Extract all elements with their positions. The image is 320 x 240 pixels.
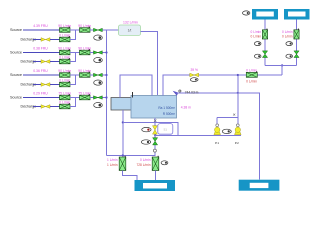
flow-meter block U1 1/t	[119, 25, 141, 35]
wire pump P11 out	[123, 171, 138, 181]
junction feed riser	[281, 64, 283, 66]
wire pump P12 out	[155, 171, 157, 181]
svg-text:Source: Source	[10, 73, 22, 77]
gauge G6b	[254, 54, 261, 58]
valve V9 (yellow vertical)	[153, 126, 158, 134]
outlet arrow mark	[154, 120, 156, 122]
pump P1c	[60, 36, 71, 42]
pump P11 vertical crossbox	[119, 156, 126, 171]
valve V6 (green vertical)	[262, 51, 267, 58]
svg-text:4.39 FRU: 4.39 FRU	[33, 24, 48, 28]
wire decharge3 join	[70, 75, 76, 85]
gauge G4	[94, 103, 103, 108]
wire feed riser	[281, 65, 283, 75]
svg-text:0.38 FRU: 0.38 FRU	[33, 47, 48, 51]
gauge G10	[141, 140, 150, 144]
svg-text:0.36 FRU: 0.36 FRU	[33, 69, 48, 73]
svg-text:90 L/min: 90 L/min	[78, 47, 91, 51]
pump P6 vertical crossbox	[262, 29, 267, 39]
pump P3b 90 L/min	[80, 72, 91, 78]
wire tank right feed	[163, 75, 282, 96]
wire tank R outlet stub	[154, 118, 156, 122]
wire bus bottom horizontal	[107, 154, 156, 156]
gauge G7b	[286, 54, 293, 58]
gauge G9	[142, 127, 151, 131]
svg-text:0 L/min: 0 L/min	[140, 158, 151, 162]
tank compartment R (main)	[131, 96, 177, 119]
wire collector bus vertical	[106, 30, 108, 155]
valve V10 (green vertical)	[153, 138, 158, 145]
gauge G5	[190, 78, 198, 82]
wire under-tank header	[123, 122, 178, 135]
wire valve VD2 to pump	[50, 61, 60, 63]
gauge G-top	[243, 11, 250, 15]
pump P5 crossbox	[246, 71, 257, 77]
svg-text:0.29 FRU: 0.29 FRU	[33, 92, 48, 96]
tower block T1	[252, 9, 278, 20]
wire hydrant header	[217, 116, 238, 118]
junction drain/bus-bottom	[122, 154, 124, 156]
port circle P2	[236, 124, 239, 127]
svg-text:75 L/min: 75 L/min	[58, 92, 71, 96]
svg-text:75 L/min: 75 L/min	[78, 92, 91, 96]
svg-text:90 L/min: 90 L/min	[78, 24, 91, 28]
svg-text:0 L/min: 0 L/min	[282, 34, 293, 38]
consumer block C2	[239, 180, 280, 191]
gauge G6a	[254, 42, 261, 46]
svg-text:90 L/min: 90 L/min	[78, 69, 91, 73]
gauge G-hydrant	[222, 129, 231, 133]
pump P2c	[60, 58, 71, 64]
wire tower2 drop	[296, 20, 298, 66]
wire tower1 drop	[264, 20, 266, 66]
wire hydrant drop P1	[216, 117, 218, 124]
valve V7 (green vertical)	[294, 51, 299, 58]
wire decharge2 stub	[33, 61, 41, 63]
wire city line	[155, 134, 241, 136]
junction drain/under-tank	[122, 121, 124, 123]
wire decharge1 join	[70, 30, 76, 40]
valve V3 (green)	[94, 73, 103, 76]
svg-text:S1: S1	[163, 128, 167, 132]
tank divider stub	[131, 92, 133, 98]
svg-text:Source: Source	[10, 28, 22, 32]
wire pump P2a to P2b	[70, 52, 80, 54]
corner mark hydrant	[233, 114, 235, 116]
pump P1b 90 L/min	[80, 27, 91, 33]
wire decharge4 stub	[33, 106, 41, 108]
wire outlet chain	[154, 122, 156, 155]
wire decharge4 join	[70, 98, 76, 107]
valve V5 (yellow) 39%	[190, 73, 199, 77]
svg-text:0 L/min: 0 L/min	[59, 101, 70, 105]
sensor arrow tank corner	[173, 91, 179, 96]
wire pump P2b to valve	[90, 52, 94, 54]
tag block S1	[158, 124, 173, 135]
junction measurement crossing	[237, 92, 239, 94]
wire pump P4b to valve	[90, 97, 94, 99]
valve V1 (green)	[94, 28, 103, 31]
svg-text:1 L/min: 1 L/min	[107, 158, 118, 162]
wire overflow pipe	[120, 75, 152, 98]
svg-text:Ra 1 500m³: Ra 1 500m³	[158, 106, 175, 110]
consumer block C1	[135, 180, 176, 191]
pump P3c	[60, 81, 71, 87]
wire decharge3 stub	[33, 84, 41, 86]
svg-text:132 L/min: 132 L/min	[123, 20, 138, 24]
sensor symbol circle	[179, 90, 181, 92]
pump P12 vertical crossbox	[152, 156, 159, 171]
pump P4a 75 L/min	[60, 94, 71, 100]
wire decharge1 stub	[33, 39, 41, 41]
junction hydrant feed	[237, 74, 239, 76]
valve V2 (green)	[94, 51, 103, 54]
junction bus group3	[105, 74, 107, 76]
wire pump P4a to P4b	[70, 97, 80, 99]
gauge G12	[161, 161, 168, 165]
port circle chain	[153, 149, 156, 152]
svg-text:0 L/min: 0 L/min	[246, 68, 257, 72]
wire valve V4 to bus	[102, 97, 107, 99]
svg-text:90 L/min: 90 L/min	[58, 47, 71, 51]
wire decharge2 join	[70, 53, 76, 62]
svg-text:0 L/min: 0 L/min	[59, 34, 70, 38]
wire source3 stub	[23, 74, 60, 76]
wire level measurement	[177, 93, 260, 180]
svg-text:1 L/min: 1 L/min	[107, 163, 118, 167]
pump P2a 90 L/min	[60, 49, 71, 55]
svg-text:P.1: P.1	[215, 141, 219, 145]
pump P1a 90 L/min	[60, 27, 71, 33]
hydrant #1	[214, 127, 221, 135]
gauge G2	[94, 58, 103, 63]
wire valve V1 to bus	[102, 29, 107, 31]
wire source2 stub	[23, 52, 60, 54]
valve V4 (green)	[94, 96, 103, 99]
svg-text:Source: Source	[10, 96, 22, 100]
wire valve V3 to bus	[102, 74, 107, 76]
junction bus group4	[105, 96, 107, 98]
hydrant #2	[235, 127, 242, 135]
svg-text:0 L/min: 0 L/min	[59, 79, 70, 83]
wire source4 stub	[23, 97, 60, 99]
wire pump P3b to valve	[90, 74, 94, 76]
wire valve V2 to bus	[102, 52, 107, 54]
wire flowmeter to tank	[141, 32, 158, 96]
wire tower merge	[265, 64, 297, 66]
pump P3a 90 L/min	[60, 72, 71, 78]
wire pump P1b to valve	[90, 29, 94, 31]
valve VD2 (yellow)	[41, 60, 50, 64]
svg-text:39 %: 39 %	[190, 68, 198, 72]
svg-text:4.38 m: 4.38 m	[181, 106, 191, 110]
svg-text:90 L/min: 90 L/min	[58, 69, 71, 73]
wire valve VD4 to pump	[50, 106, 60, 108]
pump P7 vertical crossbox	[294, 29, 299, 39]
wire hydrant drop P2	[237, 117, 239, 124]
wire valve VD1 to pump	[50, 39, 60, 41]
wire tank Ra drain	[122, 110, 124, 157]
svg-text:0 L/min: 0 L/min	[59, 56, 70, 60]
pump P2b 90 L/min	[80, 49, 91, 55]
wire hydrant feed	[237, 75, 239, 117]
wire valve VD3 to pump	[50, 84, 60, 86]
svg-text:R 500m³: R 500m³	[163, 112, 175, 116]
junction bus group2	[105, 51, 107, 53]
svg-text:728 L/min: 728 L/min	[137, 163, 151, 167]
valve VD3 (yellow)	[41, 83, 50, 87]
svg-text:90 L/min: 90 L/min	[58, 24, 71, 28]
pump P4b 75 L/min	[80, 94, 91, 100]
gauge G7a	[286, 42, 293, 46]
gauge G1	[94, 35, 103, 40]
valve VD1 (yellow)	[41, 38, 50, 42]
wire pump P3a to P3b	[70, 74, 80, 76]
wire bus to flowmeter	[107, 29, 119, 31]
svg-text:0 L/min: 0 L/min	[251, 34, 262, 38]
pump P4c	[60, 103, 71, 109]
svg-text:0 L/min: 0 L/min	[246, 80, 257, 84]
svg-text:1/t: 1/t	[128, 29, 132, 33]
wire pump P1a to P1b	[70, 29, 80, 31]
svg-text:P.2: P.2	[235, 141, 239, 145]
svg-text:Source: Source	[10, 51, 22, 55]
valve VD4 (yellow)	[41, 105, 50, 109]
tank compartment Ra (left)	[111, 98, 132, 111]
svg-text:744.03 m: 744.03 m	[185, 91, 199, 95]
wire source1 stub	[23, 29, 60, 31]
gauge G3	[94, 80, 103, 85]
tower block T2	[284, 9, 310, 20]
junction chain to city line	[154, 134, 156, 136]
port circle P1	[216, 124, 219, 127]
